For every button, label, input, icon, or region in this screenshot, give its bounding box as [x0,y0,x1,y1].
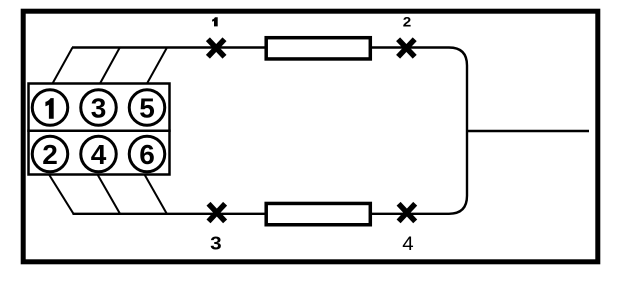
svg-text:2: 2 [403,15,411,30]
catalytic converter (bottom) [266,203,370,224]
engine block outline [29,84,170,175]
cylinder 6 [129,136,165,172]
exhaust runner 4 (bottom-middle diagonal) [98,175,121,214]
cylinder 3 [81,90,117,126]
sensor X mark 3 [209,204,226,222]
sensor X mark 1 [208,39,225,57]
exhaust runner 3 (top-middle diagonal) [100,48,120,84]
svg-text:3: 3 [91,93,107,124]
sensor X mark 4 [399,204,416,222]
svg-text:2: 2 [42,139,58,170]
cylinder 2 [32,136,68,172]
svg-text:3: 3 [210,233,222,254]
svg-text:5: 5 [139,93,155,124]
exhaust runner 1 (top-left diagonal) [53,48,73,84]
cylinder 1 [32,90,68,126]
catalytic converter (top) [266,38,370,59]
cylinder 4 [81,136,117,172]
exhaust runner 5 (top-right diagonal) [147,48,167,84]
exhaust runner 6 (bottom-right diagonal) [145,175,167,214]
sensor X mark 2 [398,39,415,57]
sensor label 1 [212,17,218,26]
svg-text:6: 6 [139,139,155,170]
svg-text:4: 4 [91,139,107,170]
engine block bank divider [27,129,171,132]
exhaust runner 2 (bottom-left diagonal) [49,175,74,214]
cylinder 5 [129,90,165,126]
svg-text:4: 4 [402,234,413,255]
tailpipe [466,130,589,133]
exhaust pipe loop (top pipe, right curve, bottom pipe) [72,48,467,214]
